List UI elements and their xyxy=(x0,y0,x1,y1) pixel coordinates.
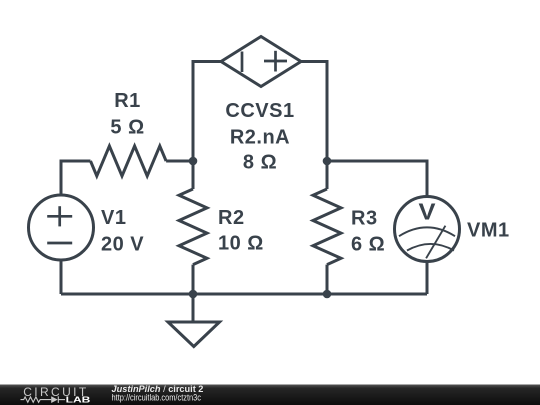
resistor R1 xyxy=(91,146,167,176)
wire node A to R2 xyxy=(192,161,195,189)
svg-text:8 Ω: 8 Ω xyxy=(243,152,277,174)
logo symbol xyxy=(21,396,66,403)
wire V1 bottom xyxy=(60,260,63,294)
node C xyxy=(189,290,198,299)
wire node B to R3 xyxy=(326,161,329,189)
voltage source V1 xyxy=(29,195,94,260)
svg-text:http://circuitlab.com/ctztn3c: http://circuitlab.com/ctztn3c xyxy=(112,392,202,402)
wire R2 to node C xyxy=(192,265,195,294)
svg-text:R3: R3 xyxy=(351,208,378,230)
dependent source CCVS1 xyxy=(221,37,301,87)
voltmeter VM1 xyxy=(395,197,460,262)
resistor R3 xyxy=(313,189,341,265)
wire node A up to CCVS1 left xyxy=(193,62,221,162)
svg-text:20 V: 20 V xyxy=(101,233,144,255)
svg-text:V1: V1 xyxy=(101,207,126,229)
svg-text:R2: R2 xyxy=(218,207,245,229)
svg-text:CCVS1: CCVS1 xyxy=(225,100,294,122)
svg-text:10 Ω: 10 Ω xyxy=(218,233,264,255)
resistor R2 xyxy=(179,189,207,265)
wire bottom rail xyxy=(61,293,427,296)
svg-text:R2.nA: R2.nA xyxy=(230,127,290,149)
ground xyxy=(168,322,220,347)
wire CCVS1 right down to node B xyxy=(301,62,327,162)
svg-text:V: V xyxy=(419,199,437,225)
wire V1 top to R1 xyxy=(61,161,91,196)
ground stem xyxy=(192,294,195,322)
svg-text:6 Ω: 6 Ω xyxy=(351,233,385,255)
svg-text:R1: R1 xyxy=(114,90,141,112)
footer bar xyxy=(0,385,540,405)
wire R3 to node D xyxy=(326,265,329,294)
node B xyxy=(323,157,332,166)
wire node B to VM1 top xyxy=(327,161,427,197)
wire VM1 bottom xyxy=(426,262,429,295)
node D xyxy=(323,290,332,299)
svg-text:5 Ω: 5 Ω xyxy=(110,116,144,138)
svg-text:LAB: LAB xyxy=(66,394,91,404)
wire R1 to node A xyxy=(166,160,193,163)
node A xyxy=(189,157,198,166)
svg-text:VM1: VM1 xyxy=(467,220,510,242)
